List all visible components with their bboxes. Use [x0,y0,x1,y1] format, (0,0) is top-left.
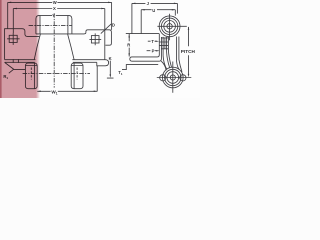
svg-text:T: T [151,39,154,44]
bottom roller inner circle [170,75,175,80]
step to right lug [72,30,112,45]
vertical centerline [53,13,55,87]
left bar [25,63,37,89]
bottom roller middle circle [167,72,179,84]
dim U [141,9,175,34]
left bar inner lines [25,63,37,88]
sidebar lines right [177,37,182,72]
pin circle right [180,75,186,81]
svg-text:K: K [109,56,112,61]
bottom roller outer circle [163,67,184,88]
left hole crosshair [7,33,20,45]
top roller ring circle [161,18,177,34]
leader T1 [122,65,158,70]
svg-text:J: J [147,1,150,6]
foot-to-roller curve [161,61,166,70]
leader P arrow [147,50,160,52]
funnel right wall [68,34,75,60]
svg-text:D: D [112,23,115,28]
pin circle left [160,75,166,81]
sidebar lines left [163,37,171,70]
attachment plate [130,34,162,61]
bottom roller crosshair [157,62,192,93]
top roller inner circle [167,24,172,29]
right hole crosshair [89,33,101,45]
leader T arrow [148,40,159,42]
bottom roller ring circle [165,69,181,85]
upper centerline [29,24,72,26]
svg-text:X: X [53,6,56,11]
pin verticals [164,38,166,49]
top roller crosshair [157,14,186,41]
left chamfer [5,62,26,69]
left lug outline [5,29,40,60]
barrel [36,15,72,34]
dim W1 [37,66,97,92]
svg-text:PITCH: PITCH [181,49,196,54]
leader D [101,24,111,34]
dim PITCH [188,26,190,77]
dim W line [8,2,112,30]
right bar centerline [76,68,78,80]
svg-text:T1: T1 [118,70,123,76]
bracket top line [126,33,160,35]
svg-text:W1: W1 [51,89,57,95]
svg-text:W: W [53,0,57,5]
top roller outer circle [159,16,180,37]
dim K [107,61,114,79]
left bar centerline [30,68,32,80]
dim J [132,3,178,34]
top roller middle circle [164,21,176,33]
svg-text:R: R [127,42,130,47]
base top line [5,60,109,66]
pin rungs [159,38,168,49]
svg-text:U: U [152,8,155,13]
svg-text:P: P [152,48,155,53]
bend ticks [13,59,18,63]
base bottom line [5,61,97,63]
lower centerline [23,73,90,75]
funnel left wall [34,34,40,60]
dim R [128,34,130,57]
right hole square [91,36,99,43]
right bar [71,63,83,89]
barrel flange lines [40,16,68,34]
left hole square [9,35,17,42]
right bar inner lines [71,63,83,88]
leader R1 [9,69,14,73]
dim X line [13,8,105,60]
